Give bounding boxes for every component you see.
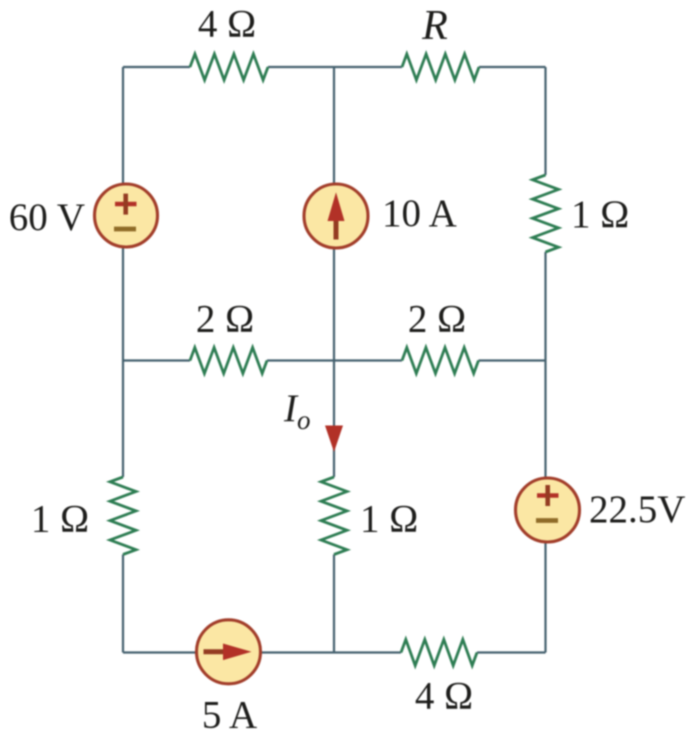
- wire middle row right segment: [479, 359, 546, 361]
- wire left vertical upper: [122, 67, 124, 477]
- resistor 4ohm top: [190, 54, 268, 80]
- svg-text:4 Ω: 4 Ω: [415, 675, 473, 718]
- wire middle vertical lower: [333, 555, 335, 653]
- voltage source 22.5V plus sign: [537, 485, 559, 506]
- resistor 1ohm middle: [321, 477, 347, 555]
- svg-text:22.5V: 22.5V: [589, 488, 685, 531]
- wire bottom-right segment: [477, 651, 546, 653]
- wire top-left segment: [123, 66, 190, 68]
- wire top-right segment: [479, 66, 546, 68]
- resistor R top: [402, 54, 479, 80]
- svg-text:5 A: 5 A: [202, 694, 257, 737]
- wire right vertical lower: [544, 252, 546, 653]
- current source 5A circle: [197, 620, 261, 684]
- wire middle row center segment: [267, 359, 402, 361]
- svg-text:60 V: 60 V: [9, 196, 85, 239]
- resistor 2ohm middle-left: [190, 348, 267, 374]
- svg-text:10 A: 10 A: [382, 192, 457, 235]
- resistor 4ohm bottom: [401, 640, 477, 666]
- svg-text:4 Ω: 4 Ω: [198, 3, 256, 46]
- wire middle vertical upper: [333, 67, 335, 477]
- svg-text:2 Ω: 2 Ω: [408, 298, 466, 341]
- voltage source 22.5V circle: [516, 478, 580, 542]
- voltage source 60V plus sign: [115, 194, 137, 215]
- voltage source 60V circle: [95, 184, 158, 247]
- current source 5A arrow (right): [204, 644, 252, 661]
- resistor 2ohm middle-right: [402, 348, 479, 374]
- wire bottom-left segment: [123, 651, 401, 653]
- current source 10A arrow (up): [328, 192, 345, 239]
- wire left vertical lower: [122, 555, 124, 653]
- svg-text:Io: Io: [283, 387, 311, 435]
- voltage source 60V minus sign: [114, 227, 136, 232]
- resistor 1ohm right: [533, 175, 559, 252]
- wire right vertical upper: [544, 67, 546, 175]
- voltage source 22.5V minus sign: [536, 518, 558, 523]
- current Io arrow (down) on middle wire: [325, 426, 343, 453]
- svg-text:1 Ω: 1 Ω: [571, 193, 629, 236]
- current source 10A circle: [304, 184, 368, 248]
- wire middle row left segment: [123, 359, 190, 361]
- svg-text:2 Ω: 2 Ω: [196, 298, 254, 341]
- svg-text:1 Ω: 1 Ω: [360, 498, 418, 541]
- resistor 1ohm left: [110, 477, 136, 555]
- wire top-middle segment: [268, 66, 402, 68]
- svg-text:R: R: [421, 3, 448, 49]
- svg-text:1 Ω: 1 Ω: [31, 498, 89, 541]
